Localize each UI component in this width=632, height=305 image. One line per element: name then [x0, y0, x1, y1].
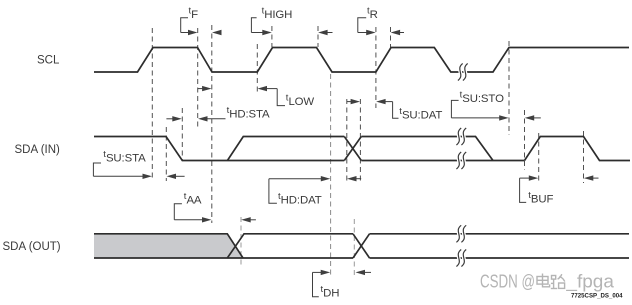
- svg-text:_fpga: _fpga: [565, 272, 615, 293]
- svg-text:SCL: SCL: [37, 55, 60, 67]
- svg-text:CSDN @: CSDN @: [480, 272, 535, 292]
- svg-text:7725CSP_DS_004: 7725CSP_DS_004: [571, 293, 623, 300]
- svg-text:SDA (OUT): SDA (OUT): [3, 241, 61, 253]
- svg-text:SDA (IN): SDA (IN): [15, 144, 61, 156]
